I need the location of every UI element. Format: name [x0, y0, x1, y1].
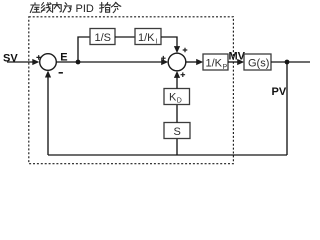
wire 1/S to 1/KI — [115, 36, 135, 38]
svg-text:1/K: 1/K — [138, 32, 155, 44]
wire E line from junction 1 to junction 2 — [56, 61, 162, 63]
block G(s) — [244, 54, 271, 70]
title char 线 — [41, 3, 51, 13]
svg-text:G(s): G(s) — [248, 57, 269, 69]
wire KD up to summing junction 2 — [176, 77, 178, 89]
svg-text:SV: SV — [3, 53, 18, 65]
svg-text:PID: PID — [76, 3, 94, 15]
svg-text:D: D — [177, 98, 182, 105]
arrowhead into 1/KP — [196, 59, 203, 65]
svg-text:MV: MV — [229, 51, 246, 63]
title char 虚 — [30, 3, 39, 13]
arrowhead into summing junction 1 bottom — [45, 71, 51, 78]
block 1/KI — [135, 29, 161, 45]
wire feedback bottom — [48, 154, 287, 156]
title char 令 — [111, 2, 121, 12]
block S — [164, 123, 190, 139]
block 1/S — [90, 29, 115, 45]
arrowhead into summing junction 1 — [32, 59, 39, 65]
dashed boundary box (PID instruction region) — [29, 17, 234, 164]
summing junction 1 — [40, 54, 57, 71]
node PV junction dot — [285, 60, 290, 65]
wire G(s) output — [271, 61, 310, 63]
svg-text:K: K — [169, 92, 177, 104]
arrowhead into summing junction 2 top — [174, 46, 180, 53]
wire PV feedback down — [286, 62, 288, 155]
plus sign at summing junction 2 bottom input — [181, 72, 186, 77]
block 1/KP — [203, 54, 228, 70]
wire junction 2 to 1/KP — [186, 61, 198, 63]
arrowhead into summing junction 2 bottom — [174, 71, 180, 78]
svg-text:1/S: 1/S — [95, 32, 112, 44]
wire feedback up to summing junction 1 — [47, 76, 49, 155]
svg-text:PV: PV — [272, 86, 287, 98]
wire 1/KI down to summing junction 2 — [161, 37, 177, 48]
svg-text:I: I — [156, 39, 158, 46]
wire derivative branch up from bottom — [176, 139, 178, 156]
plus sign at summing junction 2 left input — [161, 56, 166, 61]
block KD — [164, 89, 190, 105]
summing junction 2 — [168, 53, 186, 71]
svg-text:S: S — [174, 126, 181, 138]
title char 为 — [63, 3, 71, 13]
wire SV input — [7, 61, 34, 63]
arrowhead into summing junction 2 left — [161, 59, 168, 65]
minus sign at summing junction 1 bottom input — [59, 72, 63, 74]
wire 1/KP to G(s) — [228, 61, 239, 63]
plus sign at summing junction 1 left input — [36, 55, 41, 60]
title char 内 — [53, 2, 62, 12]
plus sign at summing junction 2 top input — [183, 48, 188, 53]
svg-text:P: P — [223, 64, 228, 71]
wire up from node E — [78, 37, 90, 62]
svg-text:1/K: 1/K — [206, 57, 223, 69]
node E branch junction dot — [76, 60, 81, 65]
wire S to KD — [176, 105, 178, 123]
title char 指 — [100, 2, 111, 12]
arrowhead into G(s) — [237, 59, 244, 65]
